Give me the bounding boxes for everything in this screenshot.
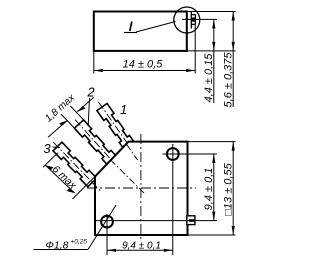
label I: [130, 22, 132, 32]
dimension 14 +- 0,5: [94, 51, 195, 74]
svg-text:3: 3: [43, 141, 51, 156]
detail circle I: [174, 7, 200, 33]
vertical centerline: [140, 134, 142, 242]
dimension 6 max (lead length): [43, 153, 58, 168]
hole bottom-left: [101, 216, 113, 228]
dimension 9,4 +- 0,1 (vertical): [213, 154, 215, 221]
leader to detail circle: [136, 22, 176, 33]
dimension []13 +- 0,55 (vertical): [232, 142, 234, 235]
hole top-right: [167, 148, 179, 160]
lead 2 (stepped terminal): [70, 115, 127, 177]
leader for 2: [88, 98, 89, 126]
dimension F1,8 +0,25 (hole): [34, 249, 89, 251]
dimension 5,6 +- 0,375: [232, 12, 234, 108]
lead 1 (stepped terminal): [93, 99, 141, 160]
dimension 9,4 +- 0,1 (horizontal bottom): [107, 249, 173, 251]
extension lines right of plan view: [96, 142, 236, 235]
svg-text:5,6 ± 0,375: 5,6 ± 0,375: [223, 52, 235, 108]
svg-text:2: 2: [86, 85, 95, 100]
terminal cross-section (filled): [192, 17, 195, 21]
lead 2 centerline extension inside body: [110, 160, 145, 194]
body rectangle (side view): [94, 12, 187, 51]
dimension 1,8 max (lead width): [48, 97, 94, 137]
svg-text:4,4 ± 0,15: 4,4 ± 0,15: [203, 53, 215, 103]
svg-text:9,4 ± 0,1: 9,4 ± 0,1: [122, 241, 161, 252]
leader for 3: [53, 146, 61, 149]
extension lines right of side view: [182, 12, 236, 51]
side tab on right edge: [187, 216, 195, 225]
svg-text:9,4 ± 0,1: 9,4 ± 0,1: [203, 168, 215, 211]
terminal lead / extension line down: [194, 24, 196, 73]
svg-text:+0,25: +0,25: [71, 239, 88, 246]
terminal bracket at right end (side view): [191, 12, 195, 29]
lead 3 centerline extension inside body: [92, 183, 101, 192]
svg-text:□13 ± 0,55: □13 ± 0,55: [223, 162, 235, 215]
horizontal centerline: [87, 187, 196, 189]
dimension 4,4 +- 0,15: [213, 19, 215, 103]
svg-text:14 ± 0,5: 14 ± 0,5: [123, 59, 164, 71]
chamfer extension line (for 6 max): [73, 177, 96, 200]
extension lines below plan view: [107, 144, 173, 255]
lead 3 (stepped terminal): [49, 138, 107, 197]
svg-text:1: 1: [120, 102, 127, 117]
svg-text:Ф1,8: Ф1,8: [46, 239, 69, 251]
lead 1 centerline extension inside body: [127, 144, 138, 160]
square body with chamfered corner (plan view): [95, 142, 188, 235]
